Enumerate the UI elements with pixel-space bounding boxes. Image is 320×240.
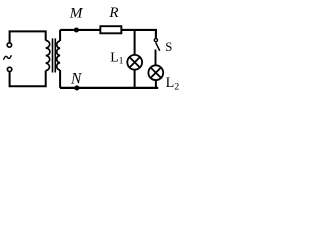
svg-text:M: M (69, 5, 84, 22)
svg-text:N: N (70, 71, 82, 88)
svg-text:R: R (108, 5, 118, 21)
svg-text:S: S (165, 40, 172, 54)
